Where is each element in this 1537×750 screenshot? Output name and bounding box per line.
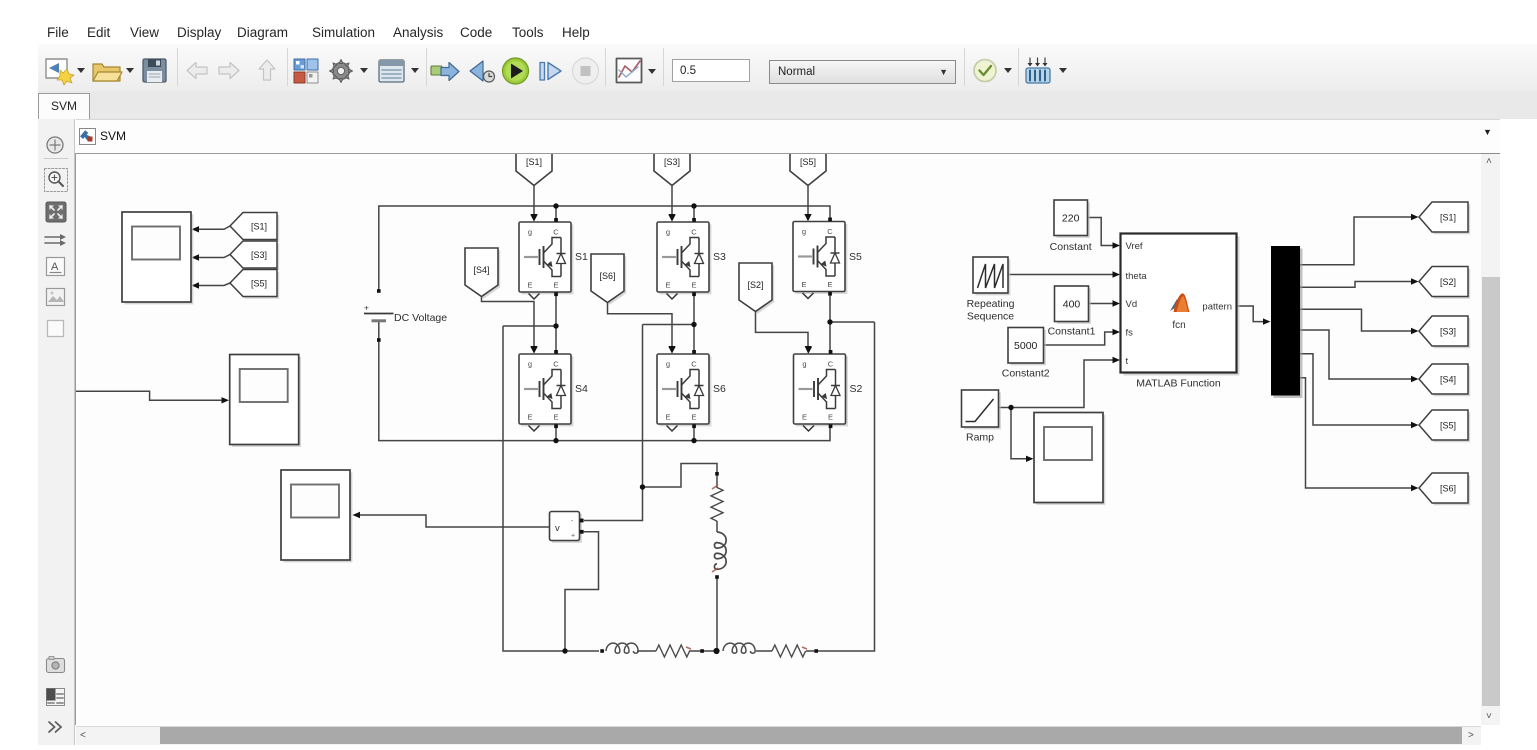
step forward icon	[540, 63, 545, 81]
expand chevrons	[49, 722, 61, 732]
svg-text:Vref: Vref	[1126, 241, 1143, 252]
wire Constant1 to Vd	[1089, 303, 1114, 305]
IGBT S6	[657, 347, 711, 432]
wire phase B to load branch	[643, 464, 718, 488]
svg-text:Constant: Constant	[1050, 241, 1092, 253]
forward arrow (disabled)	[219, 63, 239, 79]
svg-text:[S3]: [S3]	[1440, 327, 1456, 337]
menu bar	[37, 22, 39, 44]
wire top DC bus	[379, 206, 830, 291]
junction: phase B branch tap	[640, 484, 645, 489]
wire demux out4 to goto S4	[1300, 330, 1412, 379]
wire top bus tap to S1 collector	[555, 206, 557, 219]
svg-text:Vd: Vd	[1126, 299, 1138, 310]
svg-text:MATLAB Function: MATLAB Function	[1136, 378, 1221, 390]
junction: top bus to S1 collector	[553, 203, 558, 208]
inductor L2	[723, 643, 755, 653]
node phase A midpoint	[553, 323, 558, 328]
wire gate S6 from tag	[608, 303, 673, 348]
wire vertical load branch mid stub	[716, 521, 718, 532]
constant2 block 5000	[1002, 328, 1050, 380]
hide browser icon	[47, 137, 63, 153]
save icon	[143, 59, 166, 82]
svg-text:[S3]: [S3]	[664, 157, 680, 167]
port: DC Voltage negative	[377, 338, 381, 342]
From tag [S4]	[465, 248, 500, 299]
wire phase A leg	[503, 292, 599, 651]
demux block	[1274, 249, 1303, 399]
svg-text:pattern: pattern	[1202, 302, 1232, 313]
wire from tag S1 to Scope1	[199, 226, 231, 229]
inductor L vertical load	[714, 532, 726, 569]
fit to view icon	[46, 202, 66, 222]
signal routing icon	[45, 237, 60, 243]
wire from tag S5 to Scope1	[199, 283, 231, 286]
svg-text:Sequence: Sequence	[967, 311, 1014, 323]
svg-text:[S5]: [S5]	[251, 279, 267, 289]
horizontal scrollbar	[76, 726, 1481, 745]
open folder icon	[93, 64, 120, 81]
check / update diagram icon	[974, 60, 996, 82]
image annotation icon	[47, 289, 65, 306]
Goto tag [S6]	[1419, 473, 1470, 505]
wire voltage meas output to Scope3	[360, 515, 550, 527]
wire gate S4 from tag	[482, 297, 535, 348]
wire gate S5 from tag	[807, 186, 809, 215]
wire DC negative to emitter bus	[379, 321, 830, 441]
arrowheads right section	[1026, 214, 1419, 491]
svg-text:S3: S3	[713, 251, 726, 263]
Goto tag [S5]	[1419, 410, 1470, 442]
wire Repeating Sequence to theta	[1009, 274, 1114, 276]
node phase C midpoint	[827, 319, 832, 324]
svg-text:[S4]: [S4]	[473, 265, 489, 275]
wire vertical load branch top stub	[716, 474, 718, 488]
model canvas drawing	[76, 154, 1481, 725]
up arrow (disabled)	[259, 60, 275, 80]
svg-text:fcn: fcn	[1172, 320, 1185, 331]
wire demux out2 to goto S2	[1300, 282, 1412, 288]
canvas	[76, 154, 1481, 725]
wire demux out3 to goto S3	[1300, 309, 1412, 331]
wire demux out6 to goto S6	[1300, 378, 1412, 488]
scope Scope3	[281, 470, 352, 562]
wire Constant2 to fs	[1044, 332, 1114, 345]
scope Scope4	[1034, 413, 1105, 505]
Goto tag [S2]	[1419, 267, 1470, 299]
svg-text:[S6]: [S6]	[599, 271, 615, 281]
resistor R1	[656, 645, 690, 657]
From tag [S3] at Scope1	[230, 241, 279, 270]
svg-text:[S3]: [S3]	[251, 250, 267, 260]
wire emitter bus tap S4	[555, 428, 557, 441]
From tag [S5] top	[790, 146, 826, 186]
resistor R2	[772, 645, 806, 657]
junction: top bus to S3 collector	[691, 203, 696, 208]
wire gate S2 from tag	[756, 312, 809, 348]
arrowheads	[192, 214, 812, 518]
wire phase B leg	[584, 292, 694, 520]
svg-text:[S5]: [S5]	[800, 157, 816, 167]
From tag [S1] at Scope1	[230, 213, 279, 242]
gear icon	[330, 60, 353, 83]
From tag [S1] top	[516, 146, 552, 186]
ramp block	[962, 390, 1001, 444]
wire demux out1 to goto S1	[1300, 217, 1412, 265]
constant1 block 400	[1048, 286, 1096, 338]
toolbar background	[38, 44, 1537, 92]
left tool strip	[38, 119, 75, 745]
MATLAB Function block	[1121, 234, 1240, 390]
From tag [S2]	[739, 263, 774, 314]
IGBT S3	[657, 215, 711, 300]
wire into Scope2 from canvas edge	[76, 391, 223, 400]
svg-text:A: A	[51, 261, 59, 273]
wire Constant to Vref	[1088, 218, 1114, 246]
port: DC Voltage positive	[377, 289, 381, 293]
MATLAB logo	[1170, 299, 1180, 311]
library browser icon	[294, 59, 305, 70]
red element ticks	[686, 485, 807, 649]
svg-text:S1: S1	[575, 251, 588, 263]
svg-text:[S1]: [S1]	[1440, 213, 1456, 223]
breadcrumb	[76, 119, 1500, 154]
simulation data inspector icon	[617, 59, 642, 83]
svg-text:S4: S4	[575, 383, 588, 395]
svg-text:[S6]: [S6]	[1440, 484, 1456, 494]
tab strip	[38, 91, 1537, 119]
svg-text:[S5]: [S5]	[1440, 421, 1456, 431]
wires right section	[999, 217, 1413, 488]
back arrow (disabled)	[187, 63, 207, 79]
svg-text:[S1]: [S1]	[526, 157, 542, 167]
toolbar icons svg	[38, 44, 1138, 91]
svg-text:fs: fs	[1126, 328, 1134, 339]
svg-text:DC Voltage: DC Voltage	[394, 312, 447, 324]
svg-text:Ramp: Ramp	[966, 432, 994, 444]
port: RL branch 1 right terminal	[700, 649, 704, 653]
svg-text:Constant1: Constant1	[1048, 326, 1096, 338]
zoom tool icon	[45, 169, 68, 192]
0.5 textbox	[672, 59, 750, 82]
Goto tag [S4]	[1419, 364, 1470, 396]
port: vertical RL branch top terminal	[715, 472, 719, 476]
junction: emitter bus to S4	[553, 438, 558, 443]
new model icon	[46, 59, 67, 78]
resistor R vertical load	[711, 488, 723, 522]
wire Ramp to t	[999, 360, 1114, 408]
svg-text:[S2]: [S2]	[1440, 277, 1456, 287]
svg-text:Repeating: Repeating	[967, 298, 1015, 310]
svg-text:v: v	[555, 523, 560, 534]
wire vertical load branch bottom	[716, 577, 718, 651]
wire phase C leg	[817, 292, 875, 651]
From tag [S6]	[591, 254, 626, 305]
svg-text:t: t	[1126, 356, 1129, 367]
wire from tag S3 to Scope1	[199, 255, 231, 258]
repeating sequence block	[967, 257, 1015, 323]
wire gate S3 from tag	[671, 186, 673, 215]
wire top bus tap to S3 collector	[693, 206, 695, 219]
IGBT S5	[793, 214, 847, 299]
port: RL branch 2 right terminal	[814, 649, 818, 653]
stop button (disabled)	[573, 58, 599, 84]
svg-text:S5: S5	[849, 251, 862, 263]
svg-text:S6: S6	[713, 383, 726, 395]
build icon	[1026, 68, 1050, 83]
connect to target icon	[431, 66, 442, 75]
wire emitter bus tap S6	[693, 428, 695, 441]
Goto tag [S1]	[1419, 202, 1470, 234]
IGBT S4	[519, 347, 573, 432]
wire Ramp branch to Scope4	[1011, 408, 1027, 459]
svg-text:[S4]: [S4]	[1440, 375, 1456, 385]
DC Voltage source battery	[364, 314, 394, 321]
scope Scope1	[122, 212, 193, 304]
svg-text:theta: theta	[1126, 271, 1148, 282]
inductor L1	[606, 643, 638, 653]
svg-text:220: 220	[1062, 213, 1080, 225]
area box icon	[48, 321, 64, 337]
Normal combobox	[769, 60, 956, 84]
svg-text:5000: 5000	[1014, 340, 1038, 352]
voltage measurement block	[550, 512, 584, 543]
schedule editor icon	[47, 689, 65, 706]
svg-text:[S1]: [S1]	[251, 222, 267, 232]
IGBT S1	[519, 215, 573, 300]
annotation icon	[47, 258, 65, 276]
wire MATLAB Function to demux	[1237, 306, 1265, 322]
wire voltage meas plus return	[565, 532, 599, 650]
node load neutral	[713, 648, 719, 654]
scope Scope2	[230, 355, 301, 447]
wire demux out5 to goto S5	[1300, 354, 1412, 425]
wire load bus segments	[637, 650, 817, 652]
junction: load bus to voltage meas	[562, 648, 567, 653]
svg-text:Constant2: Constant2	[1002, 368, 1050, 380]
port: vertical RL branch bottom terminal	[715, 575, 719, 579]
Goto tag [S3]	[1419, 316, 1470, 348]
run button	[503, 58, 529, 84]
node phase B midpoint	[691, 322, 696, 327]
step back icon	[470, 61, 483, 81]
svg-text:400: 400	[1063, 299, 1081, 311]
From tag [S3] top	[654, 146, 690, 186]
model explorer icon	[379, 60, 404, 82]
port: RL branch 1 left terminal	[600, 649, 604, 653]
viewmarks icon	[47, 659, 65, 673]
From tag [S5] at Scope1	[230, 270, 279, 299]
svg-text:S2: S2	[850, 383, 863, 395]
svg-text:[S2]: [S2]	[747, 280, 763, 290]
junction dot ramp	[1008, 405, 1013, 410]
svg-text:+: +	[571, 533, 575, 540]
constant block 220	[1050, 200, 1092, 253]
wire gate S1 from tag	[533, 186, 535, 215]
IGBT S2	[794, 347, 848, 432]
vertical scrollbar	[1481, 154, 1500, 725]
svg-text:+: +	[364, 303, 369, 313]
junction: emitter bus to S6	[691, 438, 696, 443]
